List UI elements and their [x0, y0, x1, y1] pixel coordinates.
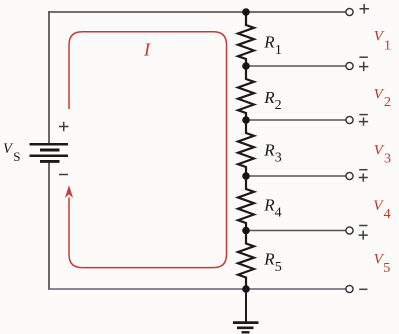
wire tap 2 (node B to terminal)	[246, 65, 346, 67]
svg-text:R: R	[263, 33, 275, 52]
minus sign terminal 6	[359, 288, 367, 290]
minus sign above terminal 5	[359, 225, 367, 227]
terminal 2 circle	[346, 62, 353, 69]
battery minus sign	[59, 174, 68, 176]
ground bar 1	[233, 321, 259, 324]
terminal 5 circle	[346, 227, 353, 234]
battery VS plate 3 long positive	[30, 154, 69, 157]
wire tap 5 (node E to terminal)	[246, 230, 346, 232]
current loop arrowhead	[65, 185, 73, 198]
battery plus sign	[59, 122, 69, 131]
svg-text:R: R	[263, 195, 275, 214]
plus sign terminal 1	[360, 4, 370, 14]
minus sign above terminal 4	[359, 169, 367, 171]
ground stem	[245, 289, 247, 322]
node D junction dot	[242, 172, 250, 180]
svg-text:R: R	[263, 141, 275, 160]
node F junction dot (bottom)	[242, 285, 250, 293]
resistor R4	[238, 176, 254, 231]
plus sign terminal 5	[359, 231, 368, 240]
resistor R1	[238, 12, 254, 66]
battery VS plate 4 short negative	[40, 160, 60, 163]
resistor R5	[238, 231, 254, 290]
node E junction dot	[242, 227, 250, 235]
svg-text:4: 4	[275, 206, 282, 221]
terminal 3 circle	[346, 116, 353, 123]
terminal 6 circle	[346, 285, 353, 292]
plus sign terminal 2	[359, 62, 368, 71]
wire bottom rail	[48, 288, 346, 290]
svg-text:S: S	[13, 149, 20, 164]
battery VS plate 1 long positive	[30, 143, 69, 146]
svg-text:5: 5	[275, 260, 282, 275]
svg-text:R: R	[263, 250, 275, 269]
current loop wire I	[69, 32, 227, 268]
ground bar 2	[237, 326, 254, 329]
svg-text:4: 4	[384, 207, 391, 222]
plus sign terminal 3	[359, 118, 368, 126]
svg-text:1: 1	[275, 43, 282, 58]
wire left vertical (battery - to bottom rail)	[48, 163, 50, 290]
node B junction dot	[242, 62, 250, 70]
svg-text:2: 2	[275, 98, 282, 113]
svg-text:3: 3	[384, 152, 391, 167]
battery VS plate 2 short negative	[40, 149, 60, 152]
svg-text:1: 1	[384, 39, 391, 54]
ground bar 3	[242, 331, 250, 333]
minus sign above terminal 3	[359, 114, 367, 116]
terminal 4 circle	[346, 172, 353, 179]
wire tap 4 (node D to terminal)	[246, 175, 346, 177]
wire tap 3 (node C to terminal)	[246, 119, 346, 121]
svg-text:R: R	[263, 88, 275, 107]
wire top rail	[48, 11, 346, 13]
resistor R3	[238, 120, 254, 176]
node A junction dot (top)	[242, 8, 250, 16]
svg-text:I: I	[143, 40, 151, 60]
svg-text:5: 5	[383, 261, 390, 276]
resistor R2	[238, 66, 254, 120]
wire left vertical (top segment to battery +)	[48, 11, 50, 144]
terminal 1 circle	[346, 8, 353, 15]
svg-text:2: 2	[384, 95, 391, 110]
minus sign above terminal 2	[359, 56, 367, 58]
svg-text:3: 3	[275, 150, 282, 165]
plus sign terminal 4	[359, 174, 368, 182]
node C junction dot	[242, 116, 250, 124]
